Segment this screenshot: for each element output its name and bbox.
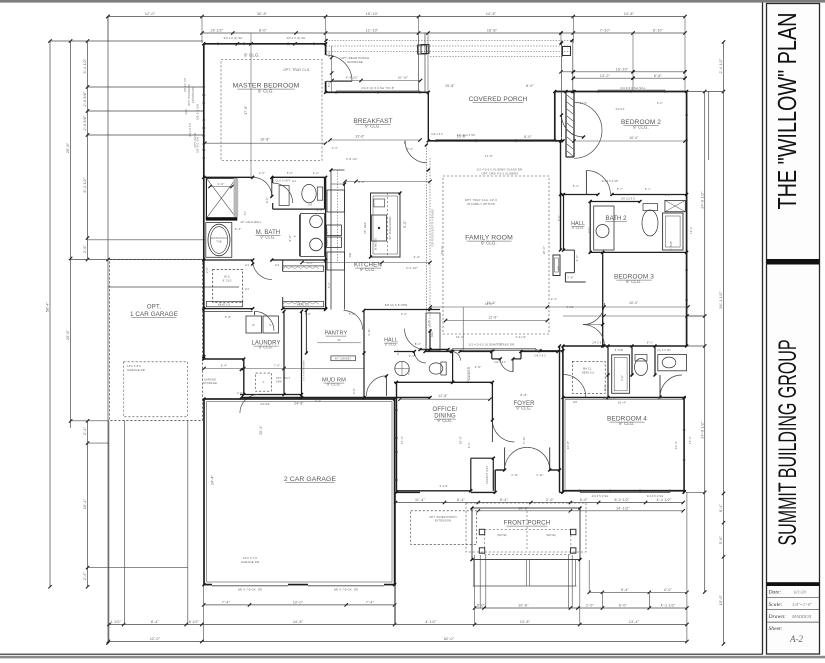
svg-text:1/4"=1'-0": 1/4"=1'-0": [792, 602, 812, 607]
b4 closet dashed: [572, 361, 605, 393]
breakfast texts: [355, 86, 467, 139]
svg-text:8'-4": 8'-4": [151, 620, 160, 624]
window ticks family north: [436, 140, 556, 143]
svg-text:6'-0": 6'-0": [403, 220, 407, 227]
mud-garage door arc: [366, 376, 386, 396]
front porch posts: [479, 529, 576, 553]
mbath tub: [206, 223, 232, 258]
kitchen dim y262: [300, 261, 431, 270]
svg-text:9' CLG.: 9' CLG.: [385, 343, 398, 347]
svg-text:MADDOX: MADDOX: [791, 614, 812, 619]
svg-text:3'-0": 3'-0": [408, 369, 411, 375]
wall: master east x325: [325, 44, 327, 93]
svg-text:BOOK SHELF: BOOK SHELF: [326, 228, 329, 246]
bath2 texts: [621, 197, 673, 251]
left extension line y238: [88, 239, 206, 241]
svg-text:B4 CL.: B4 CL.: [583, 367, 593, 371]
svg-text:9' CLG.: 9' CLG.: [626, 279, 642, 284]
svg-text:24'-8": 24'-8": [293, 620, 304, 624]
svg-text:8'-0": 8'-0": [524, 135, 532, 139]
wall: kitchen west x325: [325, 177, 327, 308]
master texts: [224, 36, 311, 142]
svg-text:11'-4": 11'-4": [415, 498, 426, 502]
svg-text:2'-0 1/2": 2'-0 1/2": [516, 336, 527, 339]
svg-text:2/8: 2/8: [308, 204, 312, 207]
svg-text:3'-0": 3'-0": [259, 171, 265, 175]
svg-text:2/4.0 6.0: 2/4.0 6.0: [592, 342, 604, 345]
pantry shelf: [306, 311, 361, 354]
wall: office south: [397, 490, 471, 492]
svg-text:2'-6": 2'-6": [83, 244, 87, 253]
powder toilet: [429, 362, 446, 375]
pantry door arc: [344, 311, 363, 330]
kitchen ref box: [426, 313, 440, 351]
bedroom2 interior dim: [572, 139, 686, 142]
dim line bottom-right row4: [588, 588, 689, 594]
svg-text:GARAGE DR: GARAGE DR: [127, 368, 145, 372]
svg-text:COVERED PORCH: COVERED PORCH: [469, 96, 528, 103]
svg-text:OPT.: OPT.: [147, 305, 161, 311]
wall: bedroom3 south: [563, 345, 687, 347]
svg-text:6'-8": 6'-8": [266, 197, 269, 203]
wall: house west upper: [203, 44, 205, 312]
svg-text:2'-8": 2'-8": [353, 388, 356, 394]
room label: hall center: [384, 338, 398, 347]
covered porch texts: [341, 56, 535, 139]
master interior dim y143: [203, 142, 327, 145]
svg-text:HEAD 5.0: HEAD 5.0: [297, 303, 310, 306]
kitchen range: [372, 215, 387, 241]
svg-text:2/4: 2/4: [275, 264, 279, 267]
svg-text:OPT. SPLIT: OPT. SPLIT: [276, 378, 291, 380]
bath4 vanity: [658, 355, 687, 371]
svg-text:OPT. DRS 4 6.0 SLIDERS: OPT. DRS 4 6.0 SLIDERS: [481, 172, 518, 176]
svg-text:8'-0": 8'-0": [328, 81, 331, 87]
bath2 vanity: [594, 206, 614, 250]
svg-text:3'-11": 3'-11": [536, 474, 543, 477]
svg-text:2'-0 1/2": 2'-0 1/2": [406, 266, 418, 270]
room label: opt 1 car garage: [130, 305, 178, 319]
svg-text:9/0 8/0: 9/0 8/0: [260, 403, 269, 406]
svg-text:5' TUB: 5' TUB: [669, 241, 673, 250]
hall door arc y260: [253, 261, 272, 280]
kitchen island: [371, 193, 401, 257]
front steps: [473, 560, 577, 586]
svg-text:24'-6 1/2": 24'-6 1/2": [700, 191, 704, 209]
svg-text:8'-0": 8'-0": [259, 29, 268, 33]
svg-text:36'-1 1/2": 36'-1 1/2": [719, 291, 723, 309]
hall door arc right: [405, 329, 426, 350]
room label: mud rm: [322, 378, 346, 387]
svg-text:30'-8": 30'-8": [257, 12, 268, 16]
family room dim vert: [462, 307, 464, 351]
room label: pantry: [324, 331, 347, 337]
scatter dims K: [576, 101, 693, 444]
svg-text:8'-4": 8'-4": [500, 498, 509, 502]
room label: m.bath: [255, 230, 280, 240]
svg-text:14'-8": 14'-8": [624, 12, 635, 16]
mud cabinet: [331, 356, 356, 361]
wall: master south: [204, 176, 326, 178]
svg-text:A-2: A-2: [789, 634, 803, 644]
dim line left v2: [66, 39, 72, 422]
svg-text:42" HIGH WALL: 42" HIGH WALL: [240, 220, 262, 224]
svg-text:6'-8": 6'-8": [654, 74, 663, 78]
svg-text:Date:: Date:: [768, 590, 782, 596]
garage inner line: [207, 402, 392, 582]
svg-text:7'-4": 7'-4": [222, 601, 231, 605]
room label: bath 2: [605, 216, 627, 222]
driveway dim left: [83, 419, 89, 588]
wall: foyer east: [559, 346, 561, 470]
page top edge bar: [0, 0, 825, 3]
svg-text:16'-0": 16'-0": [629, 301, 638, 305]
mbath gray wall: [234, 178, 239, 217]
bedroom2 closet hatch: [567, 95, 573, 156]
office door arc: [492, 420, 514, 442]
room label: bedroom 4: [607, 416, 647, 427]
bedroom3 door arcs: [583, 303, 605, 346]
wall: powder-closet divider: [452, 352, 454, 383]
wall: bedroom4 north: [563, 397, 686, 399]
svg-text:2/0 4.0 SH: 2/0 4.0 SH: [184, 78, 187, 92]
svg-text:2'-0": 2'-0": [586, 604, 595, 608]
svg-text:2'-0": 2'-0": [332, 146, 338, 150]
svg-text:3/0 5.0: 3/0 5.0: [615, 108, 624, 111]
master tray ceiling dashed: [221, 60, 322, 161]
svg-text:(2) 2.0 SH: (2) 2.0 SH: [657, 349, 670, 352]
bedroom2 closet walls: [566, 92, 574, 158]
svg-text:5'-0": 5'-0": [328, 282, 331, 288]
svg-text:THE "WILLOW" PLAN: THE "WILLOW" PLAN: [772, 13, 802, 210]
svg-text:9' CLG.: 9' CLG.: [572, 226, 585, 230]
svg-text:2'-8": 2'-8": [237, 392, 243, 395]
family west dashed ceiling: [426, 145, 434, 345]
svg-text:15'-10": 15'-10": [366, 12, 379, 16]
window ticks family south: [452, 349, 536, 352]
window ticks office west: [395, 410, 398, 480]
wall: pantry-hall x364: [363, 311, 365, 398]
svg-text:4'-0": 4'-0": [414, 255, 421, 259]
svg-text:EXPANSION: EXPANSION: [192, 87, 195, 103]
svg-text:3'-0": 3'-0": [604, 385, 607, 391]
covered porch post left: [421, 45, 429, 54]
left shelf band: [206, 301, 242, 306]
bath2 toilet: [642, 204, 658, 237]
hall small arcs: [452, 352, 461, 361]
svg-text:16'-0": 16'-0": [629, 136, 638, 140]
garage storage label: [203, 378, 217, 386]
svg-text:6'-10": 6'-10": [653, 29, 664, 33]
svg-text:Drawn:: Drawn:: [768, 614, 787, 620]
title block values: [791, 590, 812, 620]
laundry rotated text: [304, 359, 306, 381]
room label: family room: [465, 235, 513, 246]
svg-text:3/0 4.0 (2) SH: 3/0 4.0 (2) SH: [287, 36, 306, 40]
svg-text:5'-0": 5'-0": [349, 312, 355, 316]
svg-text:PANTRY: PANTRY: [324, 331, 347, 337]
wall: bedroom4 west: [562, 346, 564, 492]
bedroom2 texts: [620, 86, 646, 140]
svg-text:9' CLG.: 9' CLG.: [244, 53, 260, 58]
covered porch east edges: [562, 41, 573, 141]
svg-text:2/6 (2) 6.8: 2/6 (2) 6.8: [621, 197, 635, 201]
wall: powder south: [394, 381, 492, 383]
porch paver dashed box: [411, 511, 477, 545]
svg-text:4'-2": 4'-2": [313, 171, 319, 175]
svg-text:FRENCH DRS: FRENCH DRS: [486, 466, 489, 485]
bedroom2 closet doors: [574, 102, 602, 158]
title block labels: [768, 590, 787, 633]
svg-text:6/8 (2) 6.8 OPN: 6/8 (2) 6.8 OPN: [385, 303, 408, 307]
svg-text:24'-8": 24'-8": [294, 402, 304, 406]
dim line right v1: [700, 90, 706, 594]
svg-text:FP: FP: [557, 266, 561, 270]
svg-text:9' CLG.: 9' CLG.: [223, 280, 233, 283]
window ticks master west: [203, 87, 206, 158]
svg-text:16'-4": 16'-4": [83, 498, 87, 509]
svg-text:58'-4": 58'-4": [46, 301, 50, 312]
wall: wc room: [273, 177, 325, 209]
room label: powder: [467, 366, 471, 382]
svg-text:2'-6": 2'-6": [567, 275, 574, 279]
window ticks breakfast north: [336, 91, 420, 94]
title block top bar: [767, 582, 820, 586]
svg-text:2'-0": 2'-0": [588, 227, 591, 233]
scatter dims J: [244, 171, 319, 215]
svg-text:GARAGE DR: GARAGE DR: [241, 560, 260, 564]
master west label stack: [184, 78, 195, 106]
powder door arc: [414, 352, 426, 364]
right extension line y346: [687, 345, 705, 347]
svg-text:12'-3": 12'-3": [688, 436, 692, 444]
svg-text:8'-1 1/2": 8'-1 1/2": [83, 177, 87, 192]
window ticks master north: [218, 43, 314, 46]
svg-text:9' CLG.: 9' CLG.: [258, 89, 274, 94]
driveway horizontals: [88, 443, 188, 567]
page bottom border line: [0, 653, 763, 655]
wall: corridor north x430: [429, 331, 431, 350]
svg-text:9' CLG.: 9' CLG.: [360, 267, 376, 272]
svg-text:CLG 5 HGT: CLG 5 HGT: [276, 180, 291, 183]
svg-text:6'-2": 6'-2": [657, 101, 663, 105]
scatter dims F: [415, 335, 527, 346]
svg-text:8'-2 1/2": 8'-2 1/2": [615, 498, 630, 502]
svg-text:16'-10": 16'-10": [616, 67, 629, 71]
title: THE WILLOW PLAN: [772, 13, 802, 210]
svg-text:6'-0": 6'-0": [307, 262, 313, 265]
svg-text:6'-0": 6'-0": [580, 498, 589, 502]
svg-text:2/4.0 6.0: 2/4.0 6.0: [534, 355, 546, 358]
svg-text:2/4: 2/4: [245, 288, 249, 291]
powder band jog: [492, 352, 501, 359]
svg-text:5'-8": 5'-8": [225, 315, 232, 319]
svg-text:TEMP: TEMP: [186, 108, 188, 115]
interior dim line y307: [429, 305, 690, 308]
wall: bedroom4 south windows: [563, 491, 686, 493]
svg-text:7'-3 1/2": 7'-3 1/2": [576, 101, 587, 105]
bath4 texts: [592, 341, 670, 353]
svg-text:20'-4": 20'-4": [259, 425, 263, 434]
wall: breakfast north window: [326, 91, 429, 92]
wall: bedroom2 north window: [555, 90, 687, 91]
svg-text:4'-0": 4'-0": [575, 255, 579, 262]
svg-text:IN FAMILY OPTION: IN FAMILY OPTION: [467, 202, 495, 206]
powder texts: [409, 354, 506, 369]
svg-text:1 1/2": 1 1/2": [111, 620, 122, 624]
svg-text:13'-2": 13'-2": [600, 74, 611, 78]
mbath vanity texts: [294, 228, 329, 246]
page bottom edge bar: [0, 656, 825, 659]
svg-text:TUB: TUB: [216, 241, 222, 244]
mbath shower curb: [206, 217, 238, 220]
room label: master bedroom: [233, 83, 300, 94]
svg-text:4'-1 1/2": 4'-1 1/2": [661, 604, 676, 608]
front porch dashed roof: [466, 503, 586, 552]
foyer texts: [521, 355, 547, 398]
svg-text:6'-4 1/2": 6'-4 1/2": [346, 75, 358, 79]
svg-text:7'-10": 7'-10": [600, 29, 611, 33]
svg-text:5'-0": 5'-0": [477, 604, 486, 608]
garage door openings: [212, 584, 384, 586]
laundry dim y368: [202, 364, 364, 371]
bath2 tub: [663, 213, 683, 250]
svg-text:16'-8": 16'-8": [487, 29, 498, 33]
svg-text:2'-8": 2'-8": [621, 375, 624, 381]
svg-text:BI MICRO: BI MICRO: [376, 238, 378, 250]
breakfast door arc: [405, 141, 427, 163]
bath4 toilet: [635, 355, 648, 376]
svg-text:13'-4": 13'-4": [629, 620, 640, 624]
room label: kitchen: [354, 262, 382, 273]
svg-text:INCREASE: INCREASE: [347, 60, 363, 64]
wall: hall west jogs: [564, 195, 586, 283]
svg-text:2'-6": 2'-6": [665, 194, 671, 197]
porch dim row2: [477, 506, 685, 512]
svg-text:REF: REF: [430, 331, 434, 337]
svg-text:4'-1/2": 4'-1/2": [425, 620, 437, 624]
svg-text:10'-0": 10'-0": [293, 601, 304, 605]
sheet number A-2: [789, 634, 803, 644]
dim line left v3: [83, 39, 89, 261]
wc toilet: [302, 184, 323, 202]
bottom extension verticals: [204, 492, 687, 641]
master porch door arc: [326, 55, 352, 81]
left extension line y287: [108, 286, 239, 288]
svg-text:6/1/20: 6/1/20: [794, 590, 806, 595]
svg-text:4'-11": 4'-11": [368, 328, 371, 335]
svg-text:8'-0": 8'-0": [359, 180, 366, 184]
master west more labels: [186, 108, 197, 147]
svg-text:9' CLG.: 9' CLG.: [619, 421, 635, 426]
title: SUMMIT BUILDING GROUP: [774, 340, 802, 546]
bath4 tub: [612, 355, 630, 394]
svg-text:62'-0": 62'-0": [444, 637, 455, 641]
svg-text:3'-1": 3'-1": [397, 349, 400, 355]
svg-text:7'-4": 7'-4": [315, 399, 321, 403]
wall: bath2 south bedroom3 north: [590, 251, 686, 253]
dim line top row1: [106, 12, 686, 18]
kitchen dim y181: [343, 180, 431, 183]
breakfast dim line: [328, 138, 421, 141]
svg-text:2-2/8: 2-2/8: [567, 306, 574, 309]
covered porch dashed roof lines: [326, 41, 572, 57]
dim line left v1: [46, 39, 52, 588]
svg-text:17'-8": 17'-8": [244, 105, 248, 114]
svg-text:19'-8": 19'-8": [445, 84, 455, 88]
porch-hall door arc: [562, 115, 584, 137]
svg-text:8'-8": 8'-8": [521, 393, 528, 397]
wc texts: [276, 180, 313, 207]
svg-text:2/8 (2) 6.8: 2/8 (2) 6.8: [603, 397, 617, 400]
svg-text:2/8: 2/8: [573, 401, 577, 404]
porch dim row1: [394, 498, 685, 504]
wall: 2 car garage box: [204, 399, 395, 585]
svg-text:2'-0 5/8": 2'-0 5/8": [83, 115, 87, 130]
wall: family room north windows: [428, 139, 563, 140]
wall: breakfast east: [427, 92, 429, 141]
interior dim line y320: [444, 315, 549, 322]
breakfast left vdim: [328, 46, 333, 92]
window ticks east walls: [683, 115, 688, 460]
opt garage inner dashed: [124, 362, 188, 417]
svg-text:3'-0": 3'-0": [328, 51, 331, 57]
svg-text:POWDER: POWDER: [467, 366, 471, 382]
svg-text:5': 5': [294, 235, 297, 238]
hall right texts: [567, 255, 579, 280]
family south notes: [469, 343, 516, 347]
svg-text:5'-4 1/2": 5'-4 1/2": [83, 58, 87, 73]
wall: front wall segments: [397, 470, 563, 492]
wall: mud south: [241, 397, 430, 399]
svg-text:3/0 5.0 SH: 3/0 5.0 SH: [196, 104, 200, 120]
bedroom4 box inner: [565, 400, 684, 490]
wall: east exterior: [686, 92, 688, 347]
master bath door: [253, 177, 272, 196]
wall: band walls: [608, 346, 655, 398]
svg-text:HEAD 5.0: HEAD 5.0: [582, 372, 595, 375]
svg-text:6'-8 1/2": 6'-8 1/2": [346, 157, 358, 161]
opt split sink box: [256, 373, 291, 391]
svg-text:2/4.0 6.0: 2/4.0 6.0: [494, 361, 506, 364]
mcloset shelf bands: [283, 266, 324, 307]
svg-text:42": 42": [244, 211, 247, 215]
svg-text:3'-0": 3'-0": [401, 312, 407, 316]
svg-text:12'-0": 12'-0": [145, 12, 156, 16]
svg-text:Sheet:: Sheet:: [769, 626, 783, 632]
front door arcs: [505, 447, 550, 470]
svg-text:2/4.0 6.0 SH: 2/4.0 6.0 SH: [602, 180, 618, 183]
svg-text:5'-0": 5'-0": [657, 397, 663, 400]
room label: office dining: [432, 407, 457, 423]
svg-text:9' CLG.: 9' CLG.: [437, 418, 452, 423]
svg-text:20: 20: [337, 339, 341, 342]
svg-text:24'-6 1/2": 24'-6 1/2": [700, 421, 704, 439]
svg-text:17'-8": 17'-8": [485, 154, 493, 158]
svg-text:4'-0": 4'-0": [218, 182, 225, 186]
scatter dims A: [332, 133, 475, 161]
title block row lines: [767, 597, 820, 622]
junction speckles: [202, 39, 688, 586]
room label: 2 car garage: [284, 476, 337, 483]
title strip divider bar: [767, 259, 820, 265]
dim line top-right row4: [572, 74, 687, 80]
svg-text:BATH 2: BATH 2: [606, 216, 628, 222]
svg-text:9' CLG.: 9' CLG.: [259, 346, 273, 350]
svg-text:2/0 4.0 SH: 2/0 4.0 SH: [189, 123, 192, 136]
front porch notes: [497, 533, 556, 537]
room label: front porch: [504, 520, 551, 527]
